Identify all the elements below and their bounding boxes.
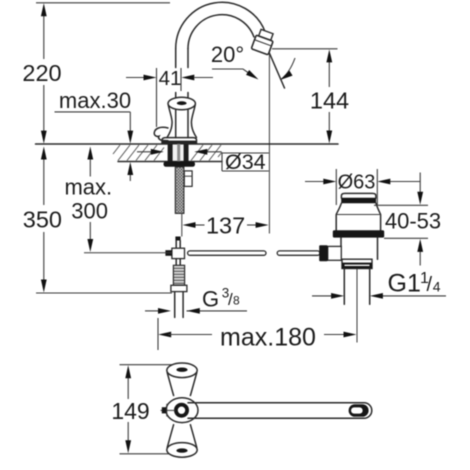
svg-text:20°: 20° — [211, 42, 244, 67]
bottom view 149 extension lines — [120, 364, 173, 366]
bottom view top bulb slot — [176, 368, 187, 372]
bottom view bottom bulb handle — [167, 425, 173, 448]
svg-text:max.: max. — [64, 175, 112, 200]
leader of 20 degree label — [212, 69, 255, 78]
wire drain center axis line — [356, 269, 358, 343]
dimension 350 vertical line — [43, 156, 45, 205]
bottom view pull rod knob — [161, 409, 176, 411]
faucet threaded shank through deck — [168, 144, 188, 162]
svg-text:300: 300 — [71, 199, 108, 224]
dimension 149 — [127, 375, 129, 399]
wire vertical stream axis from spout outlet — [268, 52, 270, 234]
pop-up cross fitting block — [172, 248, 185, 258]
dimension arrows for hole Ø34 — [137, 151, 153, 153]
faucet mounting washer dark bar — [164, 161, 196, 166]
svg-text:137: 137 — [206, 213, 245, 239]
pop-up horizontal rod segment 1 — [188, 251, 266, 255]
svg-text:G: G — [202, 286, 219, 311]
bottom view top bulb handle — [167, 373, 173, 396]
drain side port cylinder — [328, 246, 342, 260]
dimension 144 — [272, 48, 338, 50]
supply G3/8 adapter hatched — [173, 265, 184, 285]
faucet escutcheon base — [162, 138, 197, 144]
drain upper flange cone — [336, 203, 341, 230]
wire 137 left extension line (rod axis) — [181, 213, 183, 236]
drain plug cap — [341, 193, 376, 198]
drain seal ring dark — [333, 230, 384, 237]
faucet threaded rod hatched — [175, 167, 184, 214]
svg-text:149: 149 — [111, 398, 149, 424]
svg-text:Ø34: Ø34 — [225, 150, 266, 174]
pop-up horizontal rod segment 2 — [277, 251, 320, 255]
faucet handle dark slot — [177, 101, 187, 105]
faucet spout outer arc — [176, 2, 266, 48]
dimension max.180 — [157, 318, 159, 350]
faucet spout inner arc — [188, 15, 254, 49]
faucet aerator outlet — [251, 28, 275, 54]
dimension G3/8 arrows — [145, 310, 161, 312]
dimension 220 vertical line — [43, 13, 45, 59]
svg-text:max.180: max.180 — [220, 323, 316, 351]
wire horizontal rod thin left part — [84, 252, 172, 254]
faucet hose nipple block — [184, 171, 192, 187]
bottom view central disc — [166, 398, 198, 423]
dimension 40-53 — [374, 204, 428, 206]
faucet handle body — [167, 105, 172, 138]
bottom view tube socket ring — [176, 405, 187, 416]
faucet handle dome ellipse — [168, 97, 195, 110]
dimension 137 — [194, 224, 205, 226]
wire bottom reference line at pipe end level — [36, 292, 172, 294]
pop-up pull rod upper — [175, 241, 177, 249]
drain tailpipe walls — [343, 269, 345, 305]
wire top extension line of 220 — [36, 2, 170, 4]
node Ø34 label box — [222, 152, 269, 154]
dimension Ø63 — [335, 169, 337, 205]
svg-text:4: 4 — [433, 278, 441, 294]
drain body below seal — [340, 238, 342, 247]
svg-text:350: 350 — [23, 206, 62, 232]
counter hatching left — [113, 145, 164, 161]
wire max.30 label underline leader — [55, 111, 131, 113]
faucet spout vertical pipe — [175, 49, 177, 68]
counter deck bottom line — [118, 161, 168, 163]
drain knurled clamp nut — [319, 245, 328, 261]
wire angled stream line 20 degrees — [269, 51, 285, 88]
faucet lever hook left — [154, 127, 168, 141]
counter deck top line — [36, 143, 339, 145]
dimension max.30 vertical line — [129, 112, 131, 135]
counter hatching right — [191, 145, 222, 161]
svg-text:G1: G1 — [388, 269, 421, 297]
pop-up pull rod knurled cap — [175, 237, 180, 241]
svg-text:8: 8 — [233, 294, 240, 308]
angle arc of 20 degrees — [282, 58, 296, 79]
dimension 41 — [156, 68, 158, 127]
bottom view spout tube — [188, 403, 372, 419]
drain locknut band — [342, 259, 372, 268]
supply pipe — [174, 292, 176, 318]
pop-up pull rod lower — [175, 259, 177, 266]
pop-up cross clamp screw dark — [165, 250, 172, 256]
dimension max.300 vertical line — [89, 156, 91, 177]
supply nut — [171, 285, 187, 291]
svg-text:41: 41 — [159, 67, 182, 90]
svg-text:max.30: max.30 — [59, 88, 131, 113]
dimension G1 1/4 arrows — [312, 295, 334, 297]
svg-text:144: 144 — [310, 87, 349, 113]
bottom view bottom bulb slot — [176, 448, 187, 452]
svg-text:40-53: 40-53 — [385, 208, 441, 233]
svg-text:220: 220 — [22, 60, 61, 86]
bottom view spout tube dark end — [349, 404, 369, 417]
svg-text:Ø63: Ø63 — [338, 172, 376, 194]
svg-text:/: / — [427, 274, 433, 296]
